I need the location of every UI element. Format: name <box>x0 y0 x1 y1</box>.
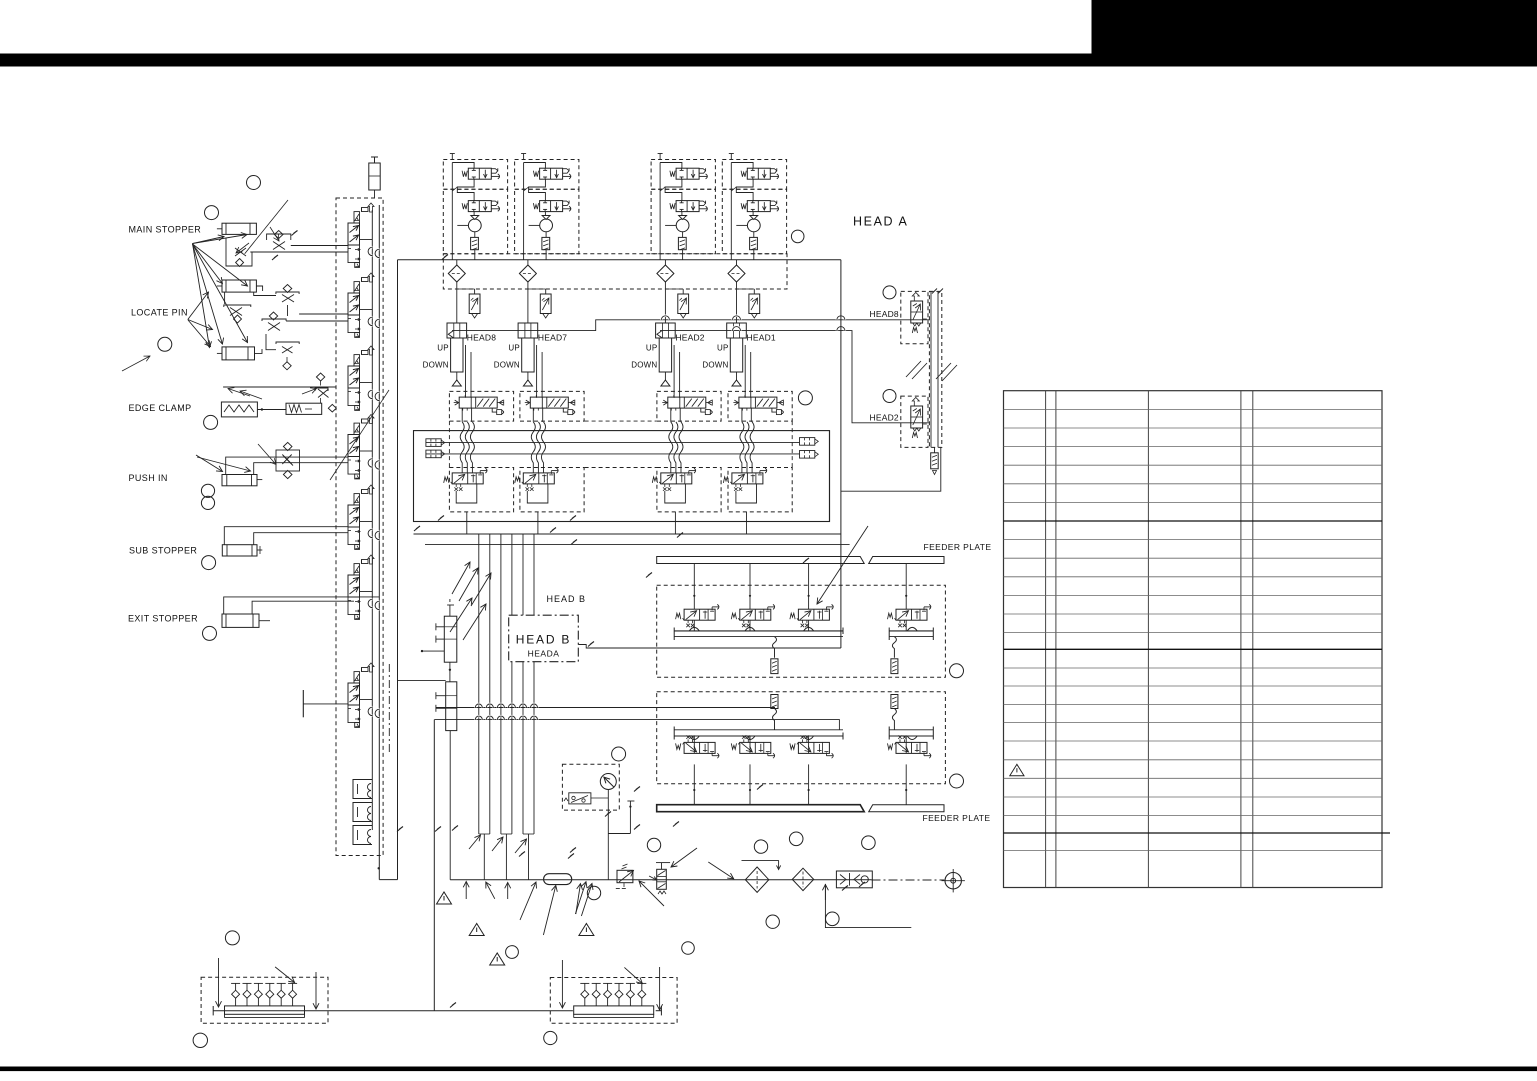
air filter 2 mist separator <box>792 868 813 890</box>
balloon 17 <box>544 1031 557 1044</box>
head 3 up-down valve dashed box <box>657 391 721 421</box>
head 3 up-down control valve <box>668 397 706 408</box>
check valve head 4 <box>753 289 755 294</box>
duct fan arrows bottom <box>469 835 481 849</box>
head unit 3 filter <box>678 237 686 249</box>
warning triangle 3 <box>579 924 594 936</box>
wires locate pin to SV2 <box>299 313 348 315</box>
footer black rule <box>0 1067 1537 1072</box>
feeder clamp valve G4 <box>905 736 907 753</box>
supply riser to bottom main <box>433 720 435 1011</box>
head 1 up-down control valve <box>459 397 497 408</box>
long service line upper <box>436 707 775 709</box>
check valve head 3 <box>682 289 684 294</box>
SV6 outlet stub and hop <box>360 591 373 593</box>
head unit 3 regulator <box>676 219 689 232</box>
cylinder PUSH IN <box>222 475 257 486</box>
shutoff valve <box>657 869 667 889</box>
head unit 2 regulator dashed box <box>515 189 579 254</box>
SV3 outlet stub and hop <box>360 382 373 384</box>
feeder clamp valve G3 <box>808 736 810 753</box>
reserved line dash-dot <box>388 664 390 754</box>
remote head filter <box>931 453 939 469</box>
tee fitting to SV7 <box>302 690 304 717</box>
table caution triangle <box>1010 764 1024 775</box>
head 4 lower valve piping <box>736 484 757 503</box>
wire sub stopper to SV5 <box>224 527 348 545</box>
manifold 1 arrows <box>216 958 222 1007</box>
solenoid valve SV5 <box>354 494 360 505</box>
balloon 8 <box>791 230 804 243</box>
balloon 5a <box>201 484 214 497</box>
connector right 2 <box>800 451 815 459</box>
tube break marks <box>906 361 921 377</box>
balloon 16 <box>506 946 519 959</box>
supply riser inside manifold <box>378 205 380 856</box>
balloon 21 <box>766 915 779 928</box>
balloon 7 <box>203 626 217 640</box>
cylinder EDGE CLAMP spring return <box>221 402 257 417</box>
head unit 3 internal piping <box>660 163 682 169</box>
head 1 lower valve dashed box <box>449 468 513 512</box>
output manifold 2 <box>574 1006 654 1014</box>
shuttle valve head 4 <box>728 265 745 282</box>
head 1 up-down valve dashed box <box>449 391 513 421</box>
line HEAD B to feeder bus <box>578 645 841 649</box>
feeder clamp valve G2 <box>749 736 751 753</box>
supply riser outside manifold <box>397 260 399 880</box>
solenoid valve SV4 <box>354 423 360 434</box>
head unit 1 solenoid valve upper <box>468 168 491 179</box>
arrow fan push in label <box>196 455 223 472</box>
stray leader line locate pin <box>330 390 389 480</box>
feeder clamp valve F2 <box>749 564 751 610</box>
solenoid valve SV1 <box>354 212 360 223</box>
cylinder HEAD2 port lines <box>673 345 675 398</box>
pilot air cartridge above manifold <box>369 163 380 190</box>
wires exit stopper to SV6 <box>224 597 380 614</box>
output manifold 1 <box>225 1006 305 1014</box>
HEAD2 valve dashed box <box>901 396 928 447</box>
cylinder EXIT STOPPER <box>222 614 259 627</box>
connector left 1 <box>426 439 441 447</box>
connector right 1 <box>800 438 815 446</box>
svg-text:FEEDER PLATE: FEEDER PLATE <box>923 813 991 823</box>
hops on service lines <box>475 704 482 707</box>
locate pin check valve unit D <box>276 342 299 344</box>
HEAD A right link riser <box>829 431 831 522</box>
svg-text:EDGE CLAMP: EDGE CLAMP <box>129 403 192 413</box>
arrow fan from main stopper label <box>192 235 224 244</box>
feeder group 1 filter a <box>773 637 777 658</box>
supply branch under check unit <box>825 884 911 928</box>
balloon 13 <box>647 838 660 851</box>
head unit 2 pilot valve dashed box <box>515 160 579 190</box>
pressure switch drain branch <box>629 801 631 834</box>
head unit 4 filter <box>750 237 758 249</box>
head unit 1 regulator dashed box <box>443 189 507 254</box>
header black block top-right <box>1092 0 1537 55</box>
head unit 4 pilot valve dashed box <box>722 160 786 190</box>
svg-text:HEAD A: HEAD A <box>853 215 908 229</box>
svg-text:UP: UP <box>646 344 658 353</box>
balloon 2 <box>205 206 219 220</box>
shuttle valve head 2 <box>519 265 536 282</box>
feeder group 2 filter b <box>891 695 898 709</box>
tube coil head 3 <box>669 422 673 473</box>
remote head dashed riser duct <box>929 291 941 447</box>
edge clamp speed controller <box>315 388 328 391</box>
warning triangle 1 <box>437 892 452 904</box>
junction box outline <box>414 431 830 522</box>
svg-text:UP: UP <box>437 344 449 353</box>
head unit 2 solenoid valve upper <box>540 168 563 179</box>
head 4 lower valve dashed box <box>728 468 792 512</box>
manifold 2 arrows <box>559 960 565 1008</box>
HEAD8 valve dashed box <box>901 291 928 343</box>
wire break marks <box>438 516 444 521</box>
main stopper check valve unit <box>267 234 291 240</box>
svg-text:EXIT STOPPER: EXIT STOPPER <box>128 614 198 624</box>
air filter 1 bracket <box>742 859 779 861</box>
main air bus HEAD A <box>398 259 841 261</box>
bottom supply line <box>213 1010 573 1012</box>
left manifold block 2 <box>446 682 457 731</box>
head 4 lower solenoid valve <box>723 468 766 491</box>
SV1 outlet stub and hop <box>360 239 373 241</box>
head 3 lower valve piping <box>665 484 686 503</box>
cylinder HEAD1 port lines <box>744 345 746 398</box>
wires push in to SV4 <box>226 457 348 474</box>
junction box lower rail <box>414 533 841 535</box>
svg-text:MAIN STOPPER: MAIN STOPPER <box>129 225 202 235</box>
shuttle valve head 3 <box>657 265 674 282</box>
head 2 lower valve piping <box>527 484 548 503</box>
edge clamp pilot valve body <box>286 403 322 414</box>
balloon 10 <box>950 664 964 678</box>
cylinder LOCATE PIN lower <box>222 347 255 360</box>
balloon 20 <box>754 840 767 853</box>
cylinder LOCATE PIN upper <box>222 280 256 292</box>
head 1 lower solenoid valve <box>444 468 487 491</box>
head unit 3 pilot valve dashed box <box>651 160 715 190</box>
head unit 1 pilot valve dashed box <box>443 160 507 190</box>
balloon 18 <box>193 1033 207 1047</box>
balloon circle HEAD8 <box>883 286 896 299</box>
feeder group 1 manifold <box>674 630 843 632</box>
locate pin speed controller B <box>224 305 251 307</box>
head unit 3 solenoid valve lower <box>676 201 699 212</box>
check valve head 2 <box>545 289 547 294</box>
head 4 up-down valve dashed box <box>728 391 792 421</box>
air filter 1 <box>745 867 768 892</box>
tube coil head 1 <box>460 422 464 473</box>
head unit 4 internal piping <box>731 163 753 169</box>
silencer oval <box>544 874 572 885</box>
head unit 4 regulator dashed box <box>722 189 786 254</box>
pressure gauge <box>600 774 616 790</box>
pilot line to HEAD8 valve <box>452 320 929 331</box>
balloon 23 <box>789 832 803 846</box>
main bus right riser <box>840 260 842 648</box>
head unit 2 solenoid valve lower <box>540 201 563 212</box>
feeder clamp valve F4 <box>905 564 907 610</box>
arrows into air line <box>463 882 469 900</box>
svg-text:HEAD7: HEAD7 <box>538 333 567 343</box>
head A common dashed box <box>443 254 787 289</box>
svg-text:HEAD B: HEAD B <box>547 594 587 604</box>
head 1 lower valve piping <box>456 484 477 503</box>
feeder group 2 filter a <box>771 695 778 709</box>
left manifold block 1 <box>444 616 457 662</box>
svg-text:DOWN: DOWN <box>702 361 728 370</box>
head unit 1 regulator <box>468 219 481 232</box>
pressure switch <box>569 793 591 804</box>
duct fan arrows top <box>452 562 470 594</box>
long service line lower <box>434 720 839 730</box>
balloon 24 <box>862 836 876 850</box>
solenoid valve SV2 <box>354 282 360 293</box>
balloon 5b <box>201 496 214 509</box>
line regulator <box>617 870 633 882</box>
stray leader line main stopper <box>245 200 288 254</box>
junction box inner manifold line 2 <box>426 453 800 455</box>
balloon 22 <box>826 912 840 926</box>
gauge drop line <box>607 790 609 880</box>
feeder clamp valve F1 <box>693 564 695 610</box>
wire main stopper to SV1 <box>291 245 348 247</box>
balloon 11 <box>950 774 964 788</box>
push in speed controller stack <box>276 450 300 471</box>
balloon 9 <box>798 391 812 405</box>
left manifold to air source <box>449 731 451 880</box>
svg-text:PUSH IN: PUSH IN <box>129 473 168 483</box>
arrow fan from locate pin label <box>188 292 209 320</box>
junction box inner manifold line 1 <box>426 442 800 444</box>
cylinder HEAD2 <box>656 323 676 338</box>
head unit 1 internal piping <box>452 163 474 169</box>
svg-text:LOCATE PIN: LOCATE PIN <box>131 308 188 318</box>
feeder plate bar top right <box>869 557 944 564</box>
balloon circle HEAD2 <box>883 390 896 403</box>
output manifold 2 dashed box <box>550 978 677 1024</box>
head unit 4 regulator <box>747 219 760 232</box>
svg-text:HEAD2: HEAD2 <box>675 333 704 343</box>
solenoid valve SV6 <box>354 564 360 575</box>
svg-text:UP: UP <box>717 344 729 353</box>
manifold end plates <box>353 780 372 799</box>
svg-text:HEAD1: HEAD1 <box>747 333 776 343</box>
head 2 up-down control valve <box>530 397 568 408</box>
pilot line to HEAD2 valve <box>660 331 929 423</box>
feeder group 2 manifold <box>674 729 843 731</box>
check unit <box>836 871 872 888</box>
pressure switch dashed box <box>562 764 619 810</box>
tube coil head 2 <box>531 422 535 473</box>
svg-text:FEEDER PLATE: FEEDER PLATE <box>924 542 992 552</box>
cylinder SUB STOPPER <box>222 545 257 556</box>
warning triangle 2 <box>469 924 484 936</box>
svg-text:HEAD B: HEAD B <box>516 633 571 647</box>
head 3 lower valve dashed box <box>657 468 721 512</box>
head unit 3 regulator dashed box <box>651 189 715 254</box>
balloon 12 <box>612 747 626 761</box>
head unit 4 solenoid valve upper <box>747 168 770 179</box>
HEAD2 remote valve <box>911 406 923 428</box>
cylinder HEAD7 port lines <box>536 345 538 398</box>
head unit 4 solenoid valve lower <box>747 201 770 212</box>
SV7 outlet stub and hop <box>360 699 373 701</box>
cylinder HEAD8 <box>447 323 467 338</box>
head 4 up-down control valve <box>739 397 777 408</box>
head 2 up-down valve dashed box <box>520 391 584 421</box>
head 2 lower valve dashed box <box>520 468 584 512</box>
air duct channels to HEAD B <box>478 534 480 834</box>
balloon 3 <box>158 337 172 351</box>
connector left 2 <box>426 450 441 458</box>
head unit 2 regulator <box>540 219 553 232</box>
balloon 14 <box>682 942 695 955</box>
balloon 19 <box>225 931 239 945</box>
feeder plate bar bottom right <box>869 805 944 812</box>
balloon 6 <box>202 556 216 570</box>
balloon 15 <box>587 886 600 899</box>
wire edge clamp to SV3 <box>223 386 336 388</box>
HEAD B dash-dot box <box>509 615 579 662</box>
svg-text:DOWN: DOWN <box>494 361 520 370</box>
parts table grid <box>1004 391 1391 888</box>
main stopper speed controller block <box>226 238 252 266</box>
warning triangle 4 <box>490 953 505 965</box>
svg-text:HEAD8: HEAD8 <box>870 309 899 319</box>
hop marks on pilot lines <box>661 316 669 320</box>
air supply dash-dot stub <box>872 879 945 881</box>
feeder clamp valve G1 <box>693 736 695 753</box>
feeder clamp valve F3 <box>808 564 810 610</box>
cylinder MAIN STOPPER <box>222 223 256 234</box>
manifold inner rail <box>371 210 373 830</box>
svg-text:DOWN: DOWN <box>631 361 657 370</box>
HEAD8 remote valve <box>911 301 923 323</box>
locate pin check valve unit A <box>276 292 299 294</box>
balloon 1 <box>247 176 261 190</box>
SV2 outlet stub and hop <box>360 309 373 311</box>
break marks main stopper wires <box>292 231 298 236</box>
svg-text:HEAD2: HEAD2 <box>870 413 899 423</box>
shuttle valve head 1 <box>448 265 465 282</box>
SV4 outlet stub and hop <box>360 450 373 452</box>
cylinder HEAD7 <box>518 323 538 338</box>
output manifold 1 dashed box <box>201 977 328 1023</box>
feeder group 1 filter b <box>892 637 896 658</box>
head unit 1 solenoid valve lower <box>468 201 491 212</box>
head 3 lower solenoid valve <box>652 468 695 491</box>
solenoid valve SV3 <box>354 355 360 366</box>
head unit 3 solenoid valve upper <box>676 168 699 179</box>
feeder plate leader arrow <box>817 526 868 604</box>
solenoid valve SV7 <box>354 672 360 683</box>
locate pin check valve unit C <box>262 319 286 321</box>
svg-text:SUB STOPPER: SUB STOPPER <box>129 546 197 556</box>
feeder plate bar bottom left <box>657 805 865 812</box>
dashed links between valve boxes <box>585 420 657 422</box>
head 2 lower solenoid valve <box>515 468 558 491</box>
check valve head 1 <box>474 289 476 294</box>
head unit 2 internal piping <box>524 163 546 169</box>
cylinder HEAD8 port lines <box>465 345 467 398</box>
air supply main line <box>450 879 871 881</box>
svg-text:HEAD8: HEAD8 <box>467 333 496 343</box>
tube coil head 4 <box>740 422 744 473</box>
junction box lower rail 2 <box>425 543 850 545</box>
svg-text:UP: UP <box>508 344 520 353</box>
feeder valve group 1 dashed box <box>657 585 946 677</box>
balloon 4 <box>204 415 218 429</box>
head unit 2 filter <box>542 237 550 249</box>
feeder valve group 2 dashed box <box>657 692 946 784</box>
cylinder HEAD1 <box>727 323 747 338</box>
feeder plate bar top left <box>657 557 865 564</box>
remote head return line <box>841 447 941 491</box>
air source target symbol <box>945 873 961 889</box>
head unit 1 filter <box>471 237 479 249</box>
SV5 outlet stub and hop <box>360 521 373 523</box>
svg-text:HEADA: HEADA <box>528 649 560 659</box>
svg-text:DOWN: DOWN <box>423 361 449 370</box>
solenoid valve manifold dashed enclosure <box>336 198 383 856</box>
header black rule <box>0 54 1537 67</box>
